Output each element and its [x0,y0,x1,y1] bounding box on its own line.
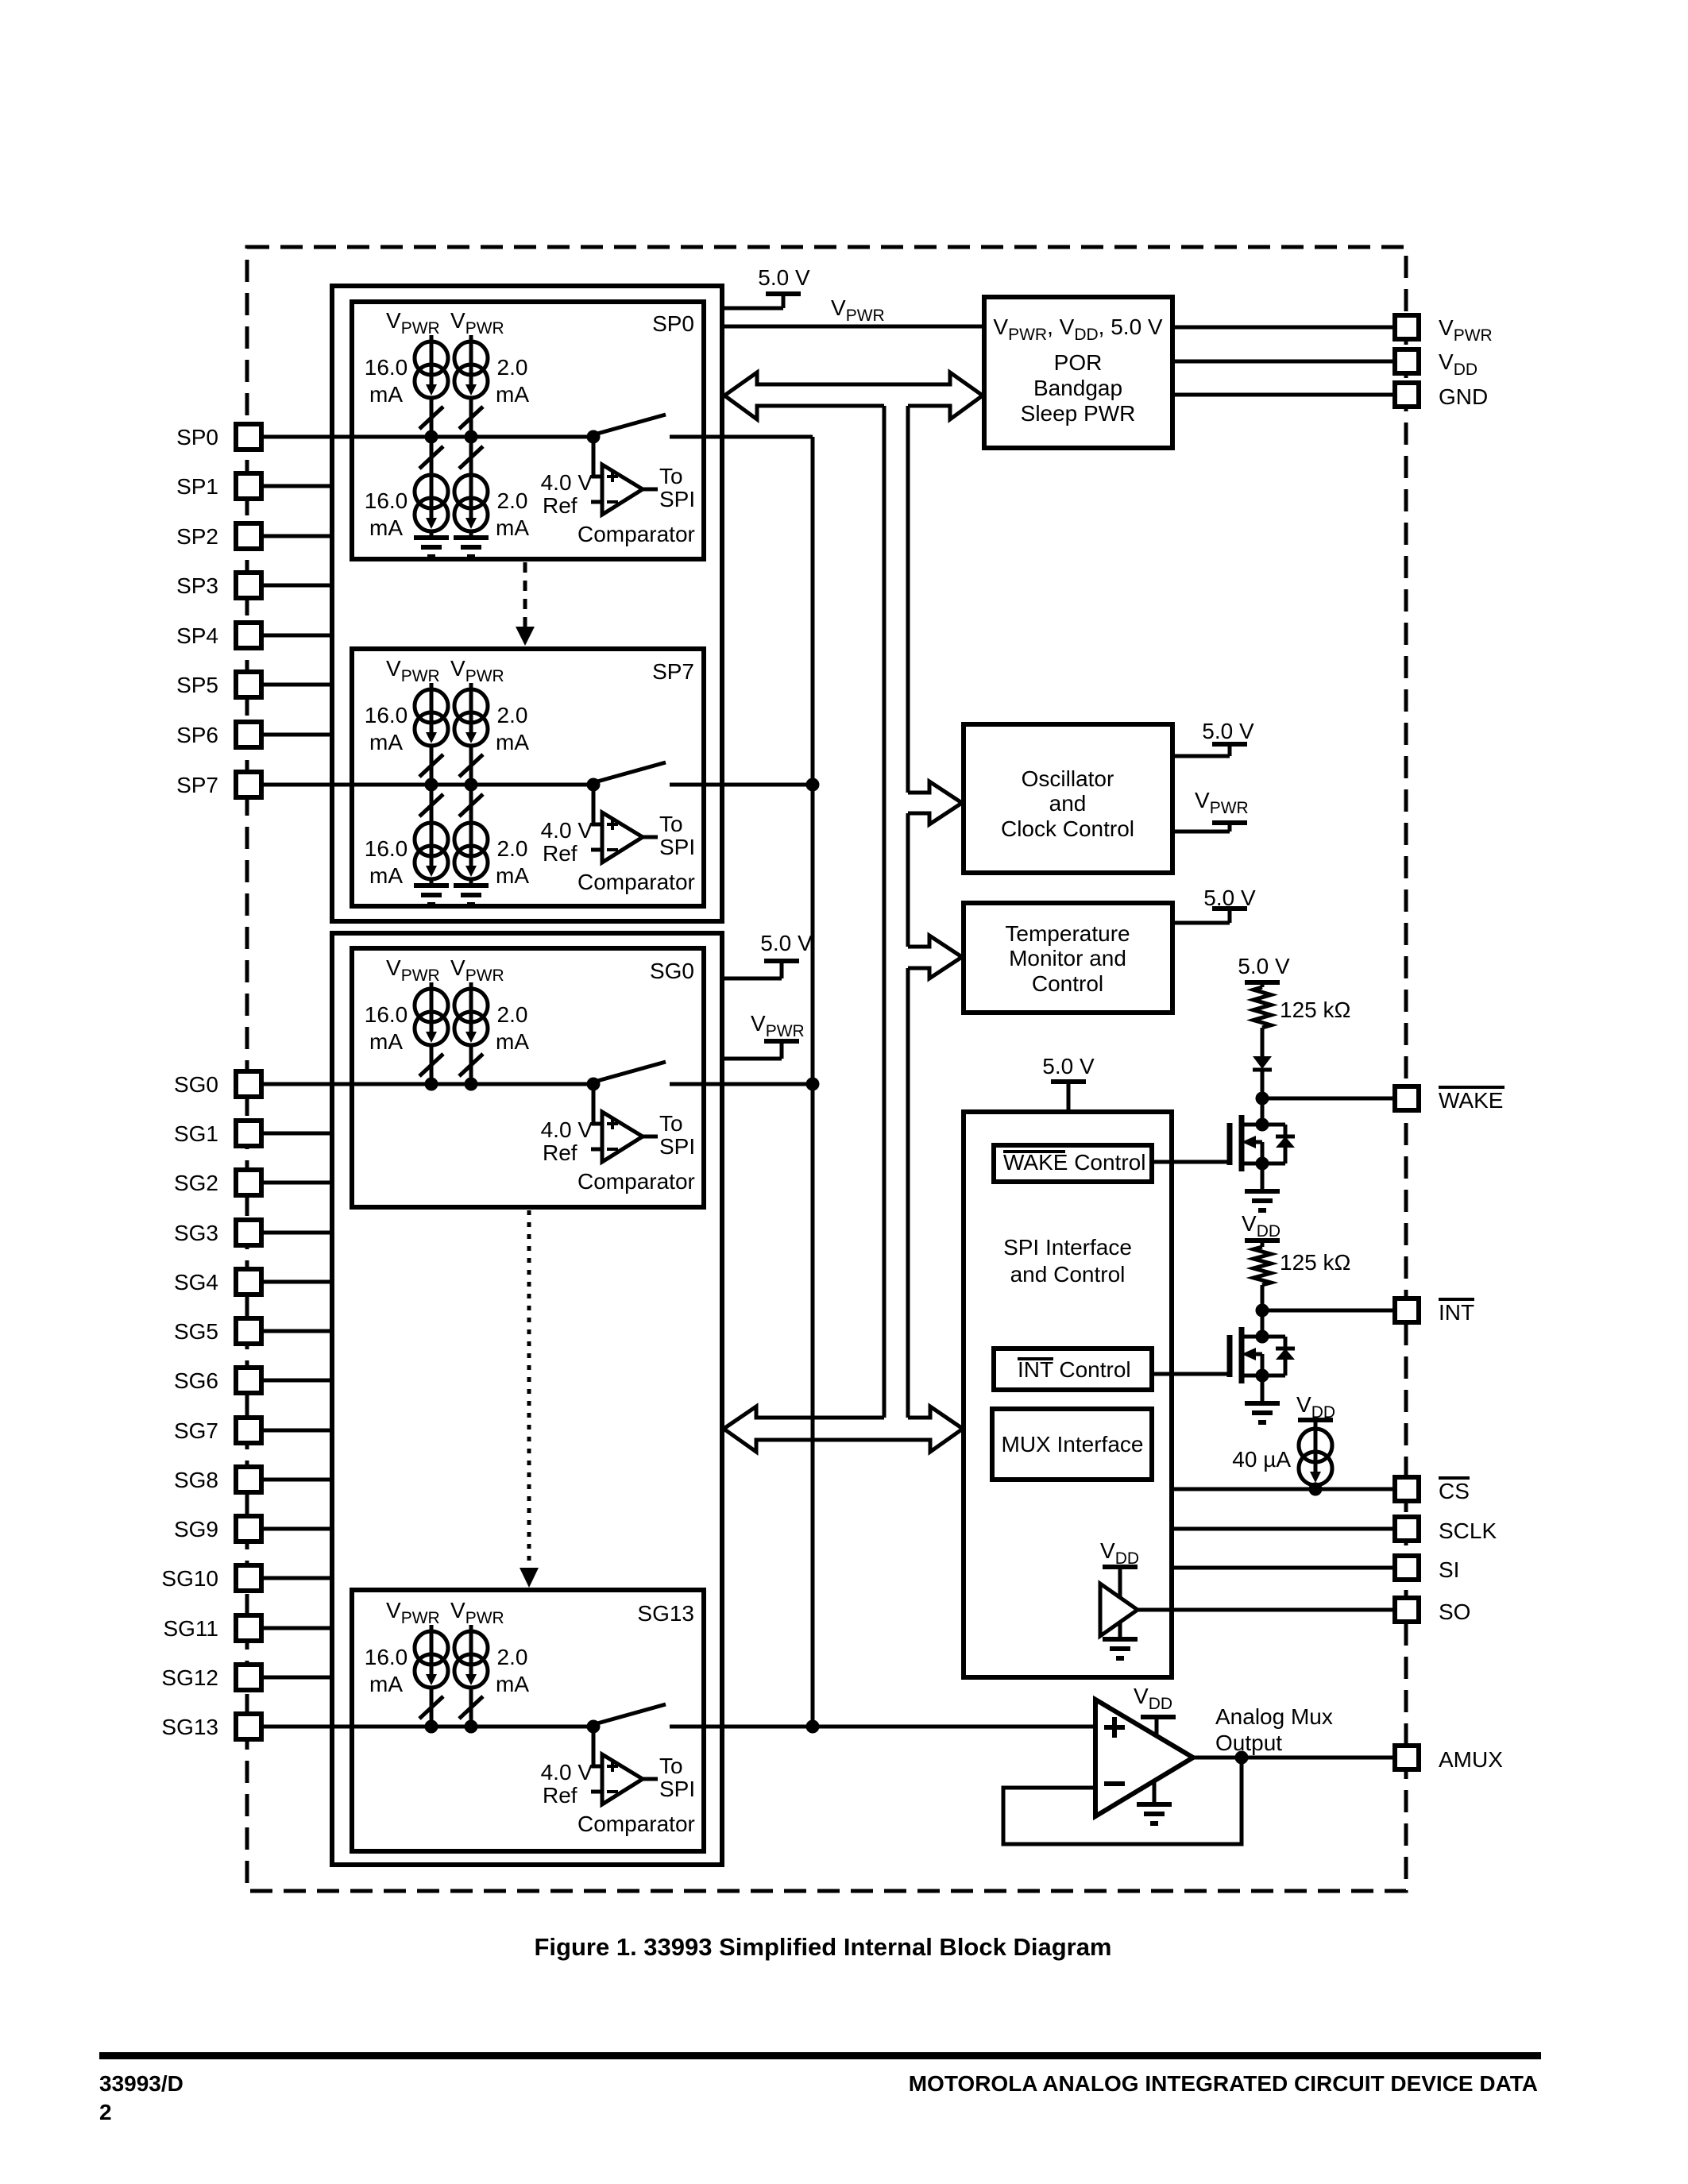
svg-text:4.0 V: 4.0 V [541,1760,593,1785]
svg-text:MOTOROLA ANALOG INTEGRATED CIR: MOTOROLA ANALOG INTEGRATED CIRCUIT DEVIC… [909,2071,1538,2096]
svg-text:SG11: SG11 [163,1616,218,1641]
wire SG3 pin stub [261,1231,332,1235]
pin SP3 [236,573,261,598]
current source 16.0 mA pull-down (SP0) [430,437,434,472]
current source 2.0 mA pull-up (SG0) [454,989,488,1022]
svg-text:Temperature: Temperature [1005,921,1130,946]
svg-text:16.0: 16.0 [365,488,408,513]
svg-text:mA: mA [369,863,403,888]
wire SG2 pin stub [261,1181,332,1185]
resistor 125 kOhm (WAKE pull-up) [1253,987,1271,1028]
svg-text:MUX Interface: MUX Interface [1002,1432,1144,1457]
svg-text:4.0 V: 4.0 V [541,818,593,843]
comparator (SG0) [593,1087,602,1124]
wire gate (Q2) [1152,1372,1230,1376]
svg-text:SG4: SG4 [174,1270,218,1295]
junction 40uA source / CS net [1309,1483,1323,1496]
svg-text:SG0: SG0 [650,959,694,983]
svg-text:To: To [659,1111,683,1136]
svg-text:SP4: SP4 [176,623,218,648]
comparator (SP0) [593,440,602,477]
pin SG8 [236,1467,261,1492]
pin SP1 [236,473,261,499]
svg-text:SP5: SP5 [176,673,218,697]
svg-text:Comparator: Comparator [577,870,695,894]
svg-text:mA: mA [369,1672,403,1696]
transistor Q1 body arrow [1247,1140,1262,1144]
wire SP5 pin stub [261,683,332,687]
pin SG10 [236,1565,261,1591]
5.0 V supply (SPI interface) [1067,1082,1071,1112]
junction dots on SP0 net [425,430,438,444]
ground (transistor Q2) [1261,1376,1265,1403]
comparator (SG13) [593,1730,602,1766]
svg-text:To: To [659,1754,683,1778]
wire POR to GND pin [1172,393,1395,397]
svg-text:16.0: 16.0 [365,703,408,727]
wire SG13 net to analog mux input [813,1725,1095,1729]
current source 2.0 mA pull-down (SP7) [469,785,473,820]
current source 2.0 mA pull-up (SG13) [454,1631,488,1665]
hollow control bus (vertical) [883,406,886,1418]
junction dots on SG13 net [425,1720,438,1734]
pin SG9 [236,1516,261,1542]
wire SG12 pin stub [261,1676,332,1680]
wire SG1 pin stub [261,1132,332,1136]
SP bank outer box [332,286,722,921]
diode (WAKE pull-up) [1253,1056,1272,1069]
SG13 cell box [352,1590,704,1851]
svg-text:40 µA: 40 µA [1232,1447,1291,1472]
svg-text:SP0: SP0 [652,311,694,336]
wire SP7 switched net [670,783,813,787]
wire SP1 pin stub [261,484,332,488]
svg-text:SG9: SG9 [174,1517,218,1542]
svg-text:125 kΩ: 125 kΩ [1280,997,1350,1022]
svg-text:16.0: 16.0 [365,1002,408,1027]
svg-text:SG7: SG7 [174,1418,218,1443]
svg-text:mA: mA [369,730,403,754]
svg-text:SO: SO [1439,1599,1470,1624]
svg-text:WAKE: WAKE [1439,1088,1503,1113]
svg-text:SPI: SPI [659,487,695,511]
svg-text:2.0: 2.0 [497,1002,528,1027]
svg-text:SP3: SP3 [176,573,218,598]
wire SO buffer to SO pin [1138,1608,1395,1612]
svg-text:Ref: Ref [543,841,577,866]
svg-text:Control: Control [1032,971,1103,996]
svg-text:Analog Mux: Analog Mux [1215,1704,1333,1729]
svg-text:SPI: SPI [659,1134,695,1159]
POR Bandgap Sleep PWR block [984,297,1172,448]
pin SP7 [236,772,261,797]
svg-text:mA: mA [496,730,529,754]
Temperature Monitor and Control block [964,903,1172,1013]
pin SG11 [236,1615,261,1641]
dotted continuation arrow SG0 to SG13 [527,1210,531,1569]
wire INT node to pin [1262,1309,1395,1313]
svg-text:SI: SI [1439,1557,1459,1582]
pin SG12 [236,1665,261,1690]
current source 16.0 mA pull-up (SG0) [415,989,448,1022]
node WAKE [1256,1092,1269,1106]
wire WAKE node to pin [1262,1097,1395,1101]
wire POR to V_PWR pin [1172,326,1395,330]
svg-text:SG6: SG6 [174,1368,218,1393]
svg-text:2.0: 2.0 [497,703,528,727]
ground (16 mA source, SP0) [430,531,434,538]
pin AMUX [1395,1746,1419,1769]
svg-text:SG3: SG3 [174,1221,218,1245]
junction dots on SP7 net [425,778,438,792]
svg-text:AMUX: AMUX [1439,1747,1503,1772]
svg-text:SG8: SG8 [174,1468,218,1492]
svg-text:mA: mA [496,515,529,540]
svg-text:Clock Control: Clock Control [1001,816,1134,841]
SP7 cell box [352,649,704,906]
svg-text:SG5: SG5 [174,1319,218,1344]
wire SP2 pin stub [261,534,332,538]
svg-text:Monitor and: Monitor and [1009,946,1126,970]
svg-text:SP1: SP1 [176,474,218,499]
svg-text:mA: mA [496,1029,529,1054]
wire SG5 pin stub [261,1329,332,1333]
wire SG8 pin stub [261,1478,332,1482]
transistor Q2 drain lead [1261,1310,1265,1337]
pin SP5 [236,672,261,697]
svg-text:SG1: SG1 [174,1121,218,1146]
5.0 V supply (SP bank) [722,307,783,311]
pin SG4 [236,1269,261,1295]
SPI Interface and Control block [964,1112,1172,1677]
bus branch arrow to Oscillator [908,781,962,824]
V_PWR supply (oscillator) [1172,830,1230,834]
pin CS [1395,1477,1419,1501]
current source 16.0 mA pull-up (SG13) [415,1631,448,1665]
pin SG1 [236,1121,261,1146]
wire SG7 pin stub [261,1429,332,1433]
svg-text:mA: mA [369,382,403,407]
IC boundary (dashed outline) [247,247,1406,1891]
svg-text:4.0 V: 4.0 V [541,470,593,495]
wire SP4 pin stub [261,634,332,638]
ground (16 mA source, SP7) [430,879,434,886]
wire SPI to CS pin [1172,1488,1395,1491]
pin SG3 [236,1220,261,1245]
pin SG13 [236,1714,261,1739]
svg-text:INT: INT [1439,1300,1474,1325]
INT Control sub-block [994,1349,1152,1390]
pin GND [1395,383,1419,407]
svg-text:SP0: SP0 [176,425,218,450]
WAKE Control sub-block [994,1145,1152,1182]
transistor Q2 body diode [1284,1337,1288,1376]
dashed continuation arrow SP0 to SP7 [523,562,527,627]
switch (SG0) [597,1062,666,1081]
5.0 V supply (oscillator) [1172,754,1230,758]
bus branch arrow to Temperature Monitor [908,936,962,978]
ground (SO buffer) [1118,1623,1122,1639]
svg-text:SPI: SPI [659,835,695,859]
SO output buffer [1100,1584,1138,1636]
wire SG0 switched net [670,1082,813,1086]
svg-text:and Control: and Control [1010,1262,1126,1287]
wire SP6 pin stub [261,733,332,737]
5.0 V supply (SG bank) [722,977,782,981]
pin SP2 [236,523,261,549]
wire sense bus (SP0/SP7/SG0/SG13 common) [811,437,815,1727]
svg-text:SG13: SG13 [637,1601,694,1626]
transistor Q1 drain lead [1261,1098,1265,1125]
SG bank outer box [332,933,722,1865]
wire SP0 input net (pin to switch) [261,435,598,439]
svg-text:SPI Interface: SPI Interface [1003,1235,1132,1260]
ground (op-amp) [1153,1781,1157,1804]
current source 16.0 mA pull-up (SP0) [415,341,448,375]
svg-text:SG12: SG12 [161,1665,218,1690]
ground (2 mA source, SP0) [469,531,473,538]
svg-text:2.0: 2.0 [497,1645,528,1669]
pin INT [1395,1298,1419,1322]
pin SG7 [236,1418,261,1443]
svg-text:33993/D: 33993/D [99,2071,183,2096]
pin SP6 [236,722,261,747]
svg-text:5.0 V: 5.0 V [1203,886,1256,910]
wire SPI to SI pin [1172,1566,1395,1570]
wire SG9 pin stub [261,1527,332,1531]
SG0 cell box [352,948,704,1207]
svg-text:125 kΩ: 125 kΩ [1280,1250,1350,1275]
svg-text:WAKE Control: WAKE Control [1003,1150,1145,1175]
svg-text:mA: mA [496,382,529,407]
junction dots on SG0 net [425,1078,438,1091]
wire SG10 pin stub [261,1576,332,1580]
wire op-amp feedback [1003,1758,1242,1844]
comparator (SP7) [593,788,602,824]
pin SG6 [236,1368,261,1393]
net V_PWR to POR block [722,325,984,329]
bidirectional bus arrow (SG bank to SPI interface) [724,1406,963,1429]
V_PWR supply (SG bank) [722,1057,782,1061]
wire SG13 input net (pin to switch) [261,1725,598,1729]
svg-text:5.0 V: 5.0 V [760,931,813,955]
pin SG5 [236,1318,261,1344]
wire SP3 pin stub [261,584,332,588]
svg-text:CS: CS [1439,1479,1470,1503]
current source 16.0 mA pull-down (SP7) [430,785,434,820]
wire SG13 switched net [670,1725,813,1729]
wire gate (Q1) [1152,1160,1230,1164]
wire SG6 pin stub [261,1379,332,1383]
svg-text:SP7: SP7 [652,659,694,684]
svg-text:SP7: SP7 [176,773,218,797]
svg-text:mA: mA [369,1029,403,1054]
junction sense bus / SP7 [806,778,820,792]
wire SP0 switched net [670,435,813,439]
svg-text:mA: mA [369,515,403,540]
svg-text:Ref: Ref [543,493,577,518]
current source 2.0 mA pull-down (SP0) [469,437,473,472]
pin VPWR [1395,315,1419,339]
bidirectional bus arrow (SP bank to POR) [724,372,983,419]
wire resistor to diode (WAKE) [1261,1028,1265,1056]
switch (SG13) [597,1704,666,1723]
svg-text:SG0: SG0 [174,1072,218,1097]
wire SG4 pin stub [261,1280,332,1284]
node INT [1256,1304,1269,1318]
svg-text:2.0: 2.0 [497,836,528,861]
resistor 125 kOhm (INT pull-up) [1253,1247,1271,1285]
op-amp U1 (analog mux output buffer) [1095,1700,1193,1816]
svg-text:SG2: SG2 [174,1171,218,1195]
wire SP7 input net (pin to switch) [261,783,598,787]
svg-text:Sleep PWR: Sleep PWR [1021,401,1136,426]
MUX Interface sub-block [992,1409,1152,1480]
svg-text:SG10: SG10 [161,1566,218,1591]
svg-text:SG13: SG13 [161,1715,218,1739]
svg-text:Comparator: Comparator [577,1812,695,1836]
svg-text:2.0: 2.0 [497,488,528,513]
svg-text:16.0: 16.0 [365,1645,408,1669]
svg-text:and: and [1049,791,1087,816]
svg-text:5.0 V: 5.0 V [1238,954,1290,978]
transistor Q2 body arrow [1247,1352,1262,1356]
svg-text:16.0: 16.0 [365,355,408,380]
wire op-amp output to AMUX pin [1193,1756,1395,1760]
svg-text:INT Control: INT Control [1018,1357,1131,1382]
pin SG0 [236,1071,261,1097]
svg-text:5.0 V: 5.0 V [1202,719,1254,743]
pin SCLK [1395,1517,1419,1541]
svg-text:Bandgap: Bandgap [1033,376,1122,400]
junction sense bus / SG13 [806,1720,820,1734]
ground (2 mA source, SP7) [469,879,473,886]
svg-text:5.0 V: 5.0 V [758,265,810,290]
svg-text:2.0: 2.0 [497,355,528,380]
current source 16.0 mA pull-up (SP7) [415,689,448,723]
svg-text:16.0: 16.0 [365,836,408,861]
current source 40 uA (CS pull-up) [1314,1420,1318,1429]
svg-text:SPI: SPI [659,1777,695,1801]
svg-text:SP2: SP2 [176,524,218,549]
transistor Q2 source lead [1242,1374,1285,1378]
transistor Q1 body diode [1284,1125,1288,1163]
svg-text:Ref: Ref [543,1140,577,1165]
svg-text:SCLK: SCLK [1439,1518,1497,1543]
ground (transistor Q1) [1261,1163,1265,1190]
wire SG11 pin stub [261,1626,332,1630]
pin WAKE [1395,1086,1419,1110]
svg-text:Output: Output [1215,1731,1282,1755]
wire SG0 input net (pin to switch) [261,1082,598,1086]
wire POR to V_DD pin [1172,360,1395,364]
SP0 cell box [352,302,704,559]
svg-text:Comparator: Comparator [577,1169,695,1194]
pin SP4 [236,623,261,648]
pin SO [1395,1598,1419,1622]
transistor Q1 channel and gate [1239,1115,1245,1171]
svg-text:GND: GND [1439,384,1488,409]
current source 2.0 mA pull-up (SP0) [454,341,488,375]
junction op-amp output / feedback [1235,1751,1249,1765]
transistor Q2 channel and gate [1239,1327,1245,1383]
5.0 V supply (temperature monitor) [1172,921,1230,925]
current source 2.0 mA pull-up (SP7) [454,689,488,723]
svg-text:Ref: Ref [543,1783,577,1808]
svg-text:5.0 V: 5.0 V [1042,1054,1095,1078]
svg-text:To: To [659,464,683,488]
switch (SP7) [597,762,666,781]
svg-text:To: To [659,812,683,836]
svg-text:Figure 1. 33993 Simplified Int: Figure 1. 33993 Simplified Internal Bloc… [534,1933,1111,1961]
svg-text:POR: POR [1054,350,1103,375]
pin VDD [1395,349,1419,373]
svg-text:mA: mA [496,863,529,888]
switch (SP0) [597,415,666,434]
pin SI [1395,1556,1419,1580]
Oscillator and Clock Control block [964,724,1172,873]
pin SP0 [236,424,261,450]
transistor Q1 source lead [1242,1162,1285,1166]
svg-text:Comparator: Comparator [577,522,695,546]
footer rule [99,2052,1541,2059]
svg-text:Oscillator: Oscillator [1022,766,1114,791]
svg-text:2: 2 [99,2100,112,2124]
wire SPI to SCLK pin [1172,1527,1395,1531]
junction sense bus / SG0 [806,1078,820,1091]
pin SG2 [236,1170,261,1195]
svg-text:4.0 V: 4.0 V [541,1117,593,1142]
svg-text:mA: mA [496,1672,529,1696]
svg-text:SP6: SP6 [176,723,218,747]
